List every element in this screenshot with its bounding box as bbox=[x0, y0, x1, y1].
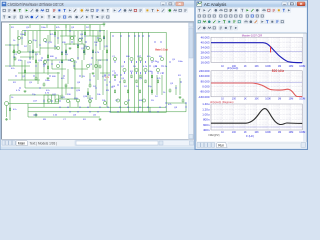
ground bbox=[24, 90, 27, 93]
transistor Q23 bbox=[66, 99, 69, 102]
resistor R7 bbox=[77, 45, 78, 48]
svg-text:Master 1.01 out: Master 1.01 out bbox=[155, 48, 168, 52]
wire bbox=[74, 68, 88, 70]
transistor Q24 bbox=[76, 99, 79, 102]
svg-text:10K: 10K bbox=[254, 98, 259, 101]
wire bbox=[17, 30, 19, 50]
resistor R28 bbox=[127, 90, 128, 93]
wire bbox=[8, 79, 40, 81]
resistor R22 bbox=[35, 60, 36, 63]
wire bbox=[81, 31, 83, 44]
right title bar bbox=[196, 1, 307, 8]
wire bbox=[106, 30, 108, 107]
transistor Q17 bbox=[139, 57, 142, 60]
svg-text:100M: 100M bbox=[299, 65, 305, 68]
wire stub 2 bbox=[65, 25, 67, 29]
svg-text:1.40u: 1.40u bbox=[202, 102, 210, 106]
wire bbox=[81, 60, 83, 78]
svg-text:Text | Models 1/93 |: Text | Models 1/93 | bbox=[30, 142, 58, 146]
wire box rail 3 bbox=[134, 32, 136, 112]
svg-text:600n: 600n bbox=[203, 123, 210, 127]
transistor Q27 bbox=[116, 99, 119, 102]
resistor R9 bbox=[114, 75, 115, 78]
tab Run bbox=[217, 143, 228, 148]
wire bbox=[9, 103, 45, 105]
wire bbox=[44, 59, 70, 61]
wire bbox=[83, 44, 85, 60]
resistor R25 bbox=[103, 36, 104, 39]
ground bbox=[99, 118, 102, 121]
toolbar area bbox=[1, 8, 194, 22]
node GND rail lower bbox=[28, 116, 100, 118]
wire bbox=[59, 95, 61, 99]
resistor R17 bbox=[9, 108, 10, 111]
capacitor C5 bbox=[169, 88, 172, 92]
svg-text:100M: 100M bbox=[299, 131, 305, 134]
wire bbox=[74, 60, 76, 100]
plot client area bbox=[196, 33, 307, 142]
wire bbox=[103, 30, 105, 50]
left title bar bbox=[1, 1, 194, 8]
svg-text:160.000: 160.000 bbox=[199, 74, 210, 78]
node V+ rail bbox=[22, 30, 105, 32]
resistor R4 bbox=[32, 50, 33, 53]
transistor Q13 bbox=[113, 57, 116, 60]
subckt block1 bbox=[44, 95, 59, 104]
wire bbox=[52, 68, 66, 70]
resistor R19 bbox=[47, 66, 48, 69]
wire bbox=[96, 59, 108, 61]
right window icon bbox=[197, 2, 202, 7]
wire stub 3 bbox=[89, 25, 91, 29]
schematic vertical scrollbar bbox=[189, 23, 194, 140]
wire bbox=[54, 25, 56, 50]
transistor Q20 bbox=[156, 68, 159, 71]
power flag bbox=[103, 23, 106, 27]
svg-text:1K: 1K bbox=[244, 98, 247, 101]
wire bbox=[64, 43, 84, 45]
plot1 gain grid bbox=[210, 37, 212, 62]
resistor R5 bbox=[47, 55, 48, 58]
transistor Q32 bbox=[94, 64, 97, 67]
wire box rail 5 bbox=[142, 32, 144, 112]
resistor R2 bbox=[54, 32, 55, 35]
svg-text:ph(v(out)): ph(v(out)) bbox=[227, 66, 238, 70]
subckt output network box bbox=[110, 32, 166, 112]
ground bbox=[92, 72, 95, 75]
wire bbox=[27, 31, 29, 52]
resistor R21 bbox=[13, 50, 14, 53]
svg-text:80.000: 80.000 bbox=[201, 79, 210, 83]
capacitor C8 bbox=[61, 94, 64, 98]
capacitor C9 bbox=[43, 82, 46, 86]
wire bbox=[67, 69, 69, 84]
wire bbox=[51, 60, 53, 69]
ground bbox=[69, 47, 72, 50]
svg-text:1.2V: 1.2V bbox=[105, 77, 110, 79]
wire bbox=[77, 31, 79, 60]
wire bbox=[35, 52, 37, 78]
transistor Q16 bbox=[135, 68, 138, 71]
wire bbox=[73, 60, 75, 69]
resistor R16 bbox=[157, 80, 158, 83]
wire bbox=[65, 85, 67, 95]
wire bbox=[57, 72, 59, 88]
svg-text:-160.000: -160.000 bbox=[198, 95, 210, 99]
svg-text:100M: 100M bbox=[299, 98, 305, 101]
transistor Q19 bbox=[150, 57, 153, 60]
wire bbox=[161, 75, 163, 95]
svg-text:10M: 10M bbox=[289, 131, 294, 134]
capacitor C7 bbox=[35, 113, 38, 117]
resistor R30 bbox=[151, 90, 152, 93]
plot2 phase grid bbox=[210, 71, 212, 97]
wire stub 0 bbox=[29, 25, 31, 29]
wire bbox=[102, 50, 104, 95]
tab Main bbox=[16, 140, 27, 145]
schematic client area bbox=[2, 22, 194, 140]
svg-text:40.063: 40.063 bbox=[201, 40, 210, 44]
transistor Q15 bbox=[130, 57, 133, 60]
source V1 bbox=[5, 102, 9, 106]
capacitor C4 bbox=[89, 83, 92, 87]
transistor Q30 bbox=[160, 57, 163, 60]
resistor R27 bbox=[114, 90, 115, 93]
wire bbox=[59, 98, 79, 100]
transistor Q18 bbox=[144, 68, 147, 71]
transistor Q21 bbox=[47, 99, 50, 102]
cursor marker 500kHz bbox=[270, 46, 272, 52]
wire bbox=[32, 31, 34, 60]
svg-text:1K: 1K bbox=[244, 65, 247, 68]
wire bbox=[89, 95, 91, 107]
wire bbox=[9, 25, 11, 65]
wire box rail 6 bbox=[148, 32, 150, 112]
node OUT rail mid bbox=[28, 111, 166, 113]
svg-text:10K: 10K bbox=[254, 65, 259, 68]
junction dots bbox=[10, 45, 11, 46]
wire bbox=[10, 94, 55, 96]
wire bbox=[97, 61, 99, 80]
svg-text:100K: 100K bbox=[265, 131, 271, 134]
wire bbox=[36, 31, 38, 48]
svg-text:1M: 1M bbox=[278, 65, 281, 68]
resistor R10 bbox=[124, 80, 125, 83]
svg-text:100n: 100n bbox=[20, 34, 26, 36]
svg-text:1M: 1M bbox=[278, 98, 281, 101]
svg-text:100n: 100n bbox=[41, 27, 47, 29]
left h-scrollbar bbox=[75, 141, 194, 146]
plot1 gain curve bbox=[211, 43, 302, 63]
wire bbox=[87, 88, 89, 99]
wire bbox=[86, 35, 101, 37]
wire bbox=[21, 60, 23, 80]
svg-text:100n: 100n bbox=[178, 61, 184, 63]
wire bbox=[29, 45, 31, 60]
left tab bar bbox=[1, 140, 194, 147]
wire bbox=[20, 56, 34, 58]
transistor Q8 bbox=[70, 36, 73, 39]
svg-text:C:\MC8\DATA\Peter\Master-1007\: C:\MC8\DATA\Peter\Master-1007\Master-100… bbox=[8, 2, 64, 7]
right toolbar row2 bbox=[197, 14, 201, 18]
svg-text:FREQ(HZ): FREQ(HZ) bbox=[209, 135, 220, 137]
wire bbox=[25, 87, 80, 89]
wire bbox=[179, 78, 181, 95]
resistor R13 bbox=[140, 75, 141, 78]
transistor Q12 bbox=[98, 38, 101, 41]
app icon bbox=[2, 2, 6, 6]
transistor Q28 bbox=[124, 101, 127, 104]
wire box rail 1 bbox=[120, 32, 122, 112]
right toolbar row3 bbox=[197, 20, 201, 24]
svg-text:22.063: 22.063 bbox=[201, 55, 210, 59]
svg-text:1.00u: 1.00u bbox=[202, 113, 210, 117]
transistor Q6 bbox=[56, 46, 59, 49]
resistor R23 bbox=[65, 50, 66, 53]
wire feedback side bbox=[185, 103, 187, 112]
svg-text:Master-1007.CIR: Master-1007.CIR bbox=[242, 33, 263, 37]
wire bbox=[65, 44, 67, 60]
resistor R3 bbox=[84, 32, 85, 35]
wire bbox=[43, 60, 45, 73]
svg-text:800n: 800n bbox=[203, 118, 210, 122]
ground bbox=[47, 77, 50, 80]
resistor R20 bbox=[61, 60, 62, 63]
plot3 delay curve bbox=[211, 109, 302, 125]
wire bbox=[60, 35, 76, 37]
left main window frame bbox=[0, 0, 195, 150]
svg-text:F (Hz): F (Hz) bbox=[246, 134, 254, 138]
left caption buttons bbox=[161, 2, 166, 6]
wire bbox=[151, 75, 153, 95]
svg-text:10M: 10M bbox=[289, 98, 294, 101]
right analysis window frame bbox=[195, 0, 308, 150]
wire bbox=[37, 62, 39, 84]
transistor Q29 bbox=[142, 99, 145, 102]
transistor Q2 bbox=[17, 50, 20, 53]
svg-text:100n: 100n bbox=[45, 80, 51, 82]
transistor Q31 bbox=[78, 38, 81, 41]
resistor R15 bbox=[151, 75, 152, 78]
svg-text:100n: 100n bbox=[148, 71, 154, 73]
transistor Q4 bbox=[43, 38, 46, 41]
wire bbox=[61, 70, 63, 95]
wire bbox=[95, 36, 97, 100]
svg-text:10M: 10M bbox=[289, 65, 294, 68]
ground bbox=[5, 118, 8, 121]
transistor Q9 bbox=[70, 58, 73, 61]
svg-text:16.063: 16.063 bbox=[201, 60, 210, 64]
transistor Q22 bbox=[55, 99, 58, 102]
wire bbox=[24, 60, 26, 88]
wire bbox=[89, 73, 91, 85]
svg-text:100K: 100K bbox=[265, 98, 271, 101]
wire box rail 4 bbox=[138, 32, 140, 112]
wire bbox=[40, 47, 58, 49]
resistor R31 bbox=[87, 92, 88, 95]
svg-text:34.063: 34.063 bbox=[201, 45, 210, 49]
wire bbox=[156, 75, 158, 95]
wire bbox=[18, 72, 60, 74]
right toolbar row4 bbox=[197, 26, 201, 30]
transistor Q26 bbox=[103, 101, 106, 104]
resistor R8 bbox=[92, 50, 93, 53]
wire feedback lower bbox=[166, 111, 186, 113]
right toolbar row1 bbox=[197, 8, 201, 12]
wire box rail 2 bbox=[128, 32, 130, 112]
transistor Q14 bbox=[123, 68, 126, 71]
resistor R6 bbox=[61, 52, 62, 55]
ground bbox=[179, 96, 182, 99]
svg-text:1M: 1M bbox=[278, 131, 281, 134]
svg-text:-80.000: -80.000 bbox=[200, 90, 210, 94]
resistor R18 bbox=[24, 70, 25, 73]
svg-text:240.000: 240.000 bbox=[199, 69, 210, 73]
wire bbox=[27, 104, 29, 118]
wire junction drop bbox=[149, 107, 151, 112]
transistor Q3 bbox=[28, 40, 31, 43]
capacitor C2 bbox=[35, 76, 38, 80]
svg-text:ph(v(out)) (Degrees): ph(v(out)) (Degrees) bbox=[210, 100, 234, 104]
resistor R14 bbox=[145, 80, 146, 83]
wire bbox=[61, 30, 63, 70]
wire bbox=[47, 35, 49, 75]
wire bbox=[92, 30, 94, 70]
transistor Q11 bbox=[86, 64, 89, 67]
resistor R11 bbox=[131, 75, 132, 78]
svg-text:400n: 400n bbox=[203, 128, 210, 132]
right toolbar area bbox=[196, 8, 307, 33]
transistor Q5 bbox=[43, 60, 46, 63]
wire bbox=[73, 31, 75, 45]
svg-text:100: 100 bbox=[232, 98, 237, 101]
wire bbox=[65, 25, 67, 36]
wire bbox=[100, 72, 110, 74]
capacitor C1 bbox=[14, 56, 17, 60]
wire bbox=[5, 65, 30, 67]
resistor R12 bbox=[136, 80, 137, 83]
wire bbox=[84, 25, 86, 55]
wire stub 1 bbox=[46, 25, 48, 29]
wire bbox=[77, 101, 79, 107]
svg-text:0.000: 0.000 bbox=[202, 85, 210, 89]
wire bbox=[13, 45, 15, 66]
svg-text:Main: Main bbox=[18, 142, 25, 146]
svg-text:AC Analysis: AC Analysis bbox=[204, 2, 226, 7]
svg-text:100K: 100K bbox=[265, 65, 271, 68]
resistor R24 bbox=[83, 50, 84, 53]
plot2 phase curve bbox=[211, 83, 302, 97]
wire bbox=[39, 25, 41, 55]
transistor Q10 bbox=[86, 46, 89, 49]
plots right scroll strip bbox=[303, 34, 307, 142]
capacitor C6 bbox=[182, 98, 185, 102]
wire feedback upper bbox=[166, 102, 186, 104]
wire bbox=[12, 51, 40, 53]
right tab bar bbox=[196, 142, 307, 149]
capacitor C3 bbox=[65, 83, 68, 87]
svg-text:10K: 10K bbox=[254, 131, 259, 134]
resistor R1 bbox=[24, 33, 25, 36]
capacitor C10 bbox=[99, 64, 102, 68]
wire bbox=[175, 85, 177, 95]
svg-text:1.20u: 1.20u bbox=[202, 107, 210, 111]
wire bbox=[89, 25, 91, 36]
transistor Q1 bbox=[17, 36, 20, 39]
svg-text:46.063: 46.063 bbox=[201, 35, 210, 39]
wire bbox=[49, 30, 51, 42]
wire bbox=[43, 99, 45, 107]
wire bbox=[21, 31, 23, 45]
left toolbar row1 icons bbox=[2, 8, 6, 12]
left toolbar row2 icons bbox=[2, 15, 6, 19]
svg-text:100: 100 bbox=[232, 131, 237, 134]
wire bbox=[5, 44, 18, 46]
node OUT rail upper bbox=[28, 106, 166, 108]
wire bbox=[69, 25, 71, 45]
wire bbox=[9, 95, 11, 120]
wire bbox=[57, 31, 59, 44]
wire bbox=[69, 101, 71, 107]
resistor R26 bbox=[106, 50, 107, 53]
svg-text:28.063: 28.063 bbox=[201, 50, 210, 54]
caption buttons bbox=[282, 2, 287, 6]
resistor R29 bbox=[139, 90, 140, 93]
plot3 delay grid bbox=[210, 104, 212, 130]
node VCC top rail bbox=[9, 24, 105, 26]
wire bbox=[99, 25, 101, 50]
transistor Q7 bbox=[56, 64, 59, 67]
wire bbox=[97, 31, 99, 42]
transistor Q25 bbox=[88, 99, 91, 102]
svg-text:Run: Run bbox=[218, 144, 224, 148]
